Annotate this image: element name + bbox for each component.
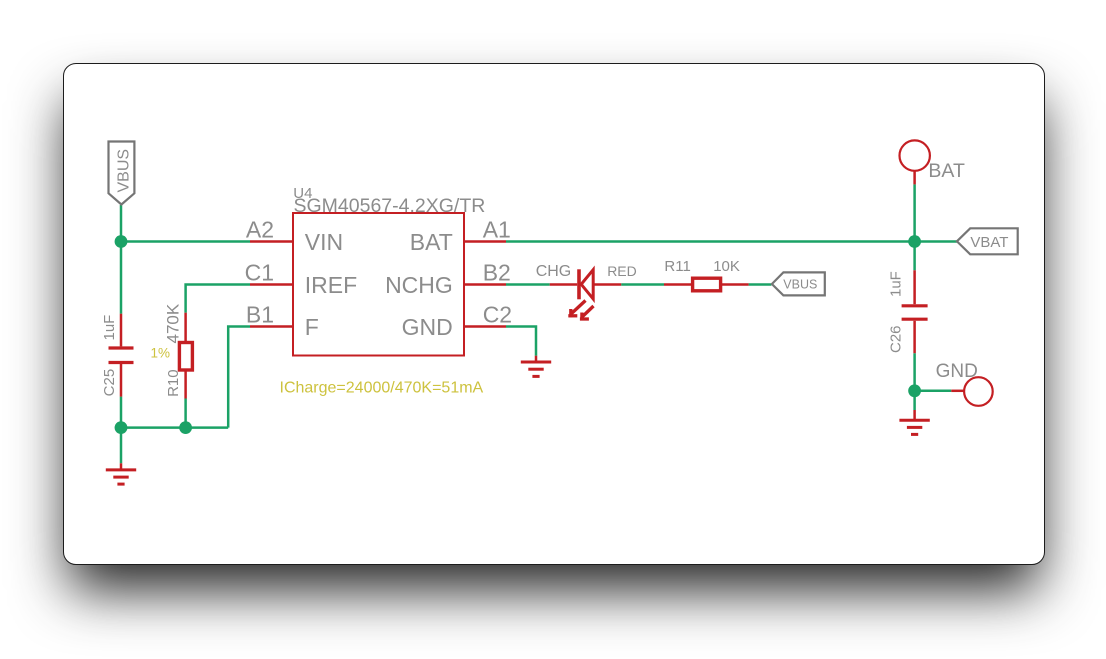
ICharge formula note (280, 380, 484, 397)
wire C2 to ground (506, 327, 536, 356)
resistor R11 value 10K (713, 258, 740, 275)
pin number A1 (483, 216, 511, 242)
ground symbol C2 (521, 356, 551, 377)
svg-text:1%: 1% (151, 346, 171, 361)
net flag VBUS top-left (109, 142, 135, 205)
svg-text:GND: GND (936, 361, 978, 382)
wire node to VBAT flag (915, 240, 958, 243)
wire BAT pin stem (913, 184, 916, 241)
pin name F (305, 314, 319, 340)
pin number C1 (245, 259, 274, 285)
net flag VBUS right (772, 272, 825, 295)
svg-text:F: F (305, 314, 319, 340)
net flag VBAT text (970, 234, 1008, 251)
net flag VBUS right text (783, 278, 817, 292)
wire node to C25 (120, 242, 123, 314)
pin number C2 (483, 301, 512, 327)
pin name NCHG (385, 272, 453, 298)
svg-text:RED: RED (607, 263, 637, 279)
svg-text:1uF: 1uF (887, 271, 904, 297)
wire B2 to LED (506, 283, 550, 286)
ground symbol right (899, 410, 929, 434)
capacitor C26 value 1uF (887, 271, 904, 297)
svg-text:A2: A2 (246, 216, 274, 242)
wire node to C26 (913, 242, 916, 271)
resistor R10 reference (165, 369, 182, 397)
IC U4 reference label (293, 185, 312, 202)
LED arrow 1 (568, 301, 585, 318)
wire node2 to GND pin (915, 390, 952, 393)
node junction VBAT (908, 235, 921, 248)
wire LED to R11 (621, 283, 664, 286)
resistor R10 tolerance 1% (151, 346, 171, 361)
svg-text:NCHG: NCHG (385, 272, 453, 298)
svg-text:A1: A1 (483, 216, 511, 242)
wire C25 bottom (120, 397, 123, 428)
svg-text:BAT: BAT (928, 160, 965, 182)
port GND pin circle (951, 377, 992, 406)
ground symbol left (106, 463, 136, 484)
node junction R10 bottom (179, 421, 192, 434)
svg-text:B1: B1 (246, 301, 274, 327)
pin name IREF (305, 272, 357, 298)
net flag VBUS top-left text (115, 149, 132, 193)
capacitor C25 reference (101, 369, 118, 397)
svg-text:IREF: IREF (305, 272, 357, 298)
svg-text:R11: R11 (664, 258, 690, 275)
svg-text:VBUS: VBUS (783, 278, 817, 292)
wire to ground left (120, 428, 123, 464)
svg-text:10K: 10K (713, 258, 740, 275)
svg-text:CHG: CHG (536, 263, 572, 280)
svg-text:470K: 470K (164, 303, 183, 343)
LED arrow 2 (580, 306, 594, 321)
capacitor C26 (902, 270, 928, 353)
wire R10 bottom (184, 399, 187, 428)
svg-text:GND: GND (402, 314, 453, 340)
LED color label RED (607, 263, 637, 279)
port GND label (936, 361, 978, 382)
svg-text:SGM40567-4.2XG/TR: SGM40567-4.2XG/TR (294, 195, 486, 217)
pin number A2 (246, 216, 274, 242)
wire B1 to bottom net (228, 327, 250, 428)
IC U4 value label (294, 195, 486, 217)
wire A2 horizontal (121, 240, 250, 243)
IC U4 pin stubs (250, 242, 506, 327)
capacitor C25 (109, 314, 134, 397)
pin number B2 (483, 259, 511, 285)
port BAT pin circle (900, 140, 930, 184)
pin name BAT (410, 229, 453, 255)
svg-text:ICharge=24000/470K=51mA: ICharge=24000/470K=51mA (280, 380, 484, 397)
resistor R10 value 470K (164, 303, 183, 343)
wire VBUS flag to node (120, 205, 123, 242)
LED chg (550, 269, 622, 299)
IC U4 body (293, 213, 464, 356)
svg-text:VIN: VIN (305, 229, 343, 255)
pin name GND (402, 314, 453, 340)
wire R11 to VBUS flag (749, 283, 772, 286)
resistor R10 (179, 313, 192, 399)
capacitor C26 reference (887, 325, 904, 353)
svg-text:1uF: 1uF (101, 315, 118, 341)
svg-text:C25: C25 (101, 369, 118, 397)
wire C26 to node2 (913, 353, 916, 391)
wire A1 to VBAT node (506, 240, 915, 243)
capacitor C25 value 1uF (101, 315, 118, 341)
pin name VIN (305, 229, 343, 255)
node junction VBUS left (115, 235, 128, 248)
svg-text:C1: C1 (245, 259, 274, 285)
svg-text:C2: C2 (483, 301, 512, 327)
pin number B1 (246, 301, 274, 327)
svg-text:B2: B2 (483, 259, 511, 285)
svg-text:C26: C26 (887, 325, 904, 353)
svg-text:BAT: BAT (410, 229, 453, 255)
svg-text:VBAT: VBAT (970, 234, 1008, 251)
node junction GND right (908, 384, 921, 397)
LED net label CHG (536, 263, 572, 280)
wire node2 to ground right (913, 391, 916, 410)
resistor R11 (664, 278, 749, 291)
schematic card (63, 63, 1045, 565)
net flag VBAT (957, 228, 1018, 254)
port BAT label (928, 160, 965, 182)
node junction GND left (115, 421, 128, 434)
resistor R11 reference (664, 258, 690, 275)
svg-text:R10: R10 (165, 369, 182, 397)
svg-text:VBUS: VBUS (115, 149, 132, 193)
wire C1 to R10 (186, 285, 250, 313)
wire bottom net (121, 426, 228, 429)
